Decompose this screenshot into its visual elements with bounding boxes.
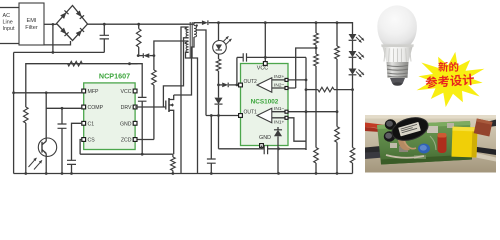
- svg-text:OUT2: OUT2: [244, 79, 258, 85]
- svg-text:NCS1002: NCS1002: [251, 99, 279, 106]
- wire CS: [80, 140, 82, 155]
- diode D5 zener: [214, 85, 222, 117]
- wire divider mid: [296, 47, 318, 88]
- op-amp U1 NCP1607 box: [84, 83, 135, 150]
- node LED bulb photo: [377, 5, 417, 85]
- resistor R1: [68, 61, 83, 66]
- svg-text:VCC: VCC: [257, 66, 268, 72]
- wire DC+ rail left: [88, 23, 195, 26]
- svg-text:NCP1607: NCP1607: [99, 72, 130, 81]
- node starburst new reference design: [417, 52, 485, 107]
- wire DC- rail: [14, 51, 105, 54]
- node AC line input label: [3, 13, 15, 32]
- diode D2 output: [194, 20, 353, 25]
- diode D6 zener internal: [274, 127, 282, 175]
- wire VCC feed: [130, 64, 143, 155]
- diode D7 LED: [349, 34, 364, 43]
- svg-text:VCC: VCC: [121, 89, 132, 95]
- svg-text:GND: GND: [120, 121, 132, 127]
- node NCP1607 label: [99, 72, 130, 81]
- wire VCC NCS: [257, 23, 268, 72]
- svg-text:IN1−: IN1−: [274, 106, 284, 112]
- EMI filter block: [19, 3, 44, 45]
- node GND pin: [259, 135, 271, 149]
- wire node B horizontal: [26, 64, 138, 107]
- resistor R2: [24, 107, 29, 174]
- wire IN2+: [272, 74, 308, 81]
- svg-text:Filter: Filter: [25, 25, 38, 31]
- wire opto LED top: [218, 23, 220, 41]
- svg-text:COMP: COMP: [88, 105, 104, 111]
- wire drain: [174, 37, 194, 95]
- transistor Q1 MOSFET: [166, 95, 174, 114]
- transformer T1: [185, 22, 198, 58]
- node NCS1002 label: [251, 99, 279, 106]
- node output rail dots: [217, 21, 338, 24]
- resistor R3: [136, 24, 141, 55]
- wire IN2-: [272, 82, 296, 89]
- wire output return: [219, 148, 265, 150]
- wire secondary return: [196, 30, 207, 116]
- op-amp U2A: [239, 78, 272, 92]
- wire DRV to gate: [135, 106, 166, 108]
- capacitor C1 input filter: [100, 24, 109, 52]
- wire secondary bottom: [163, 38, 188, 107]
- wire IN1-: [272, 106, 339, 113]
- wire opto emitter: [45, 156, 47, 173]
- resistor R10: [335, 23, 340, 112]
- wire feedback: [305, 88, 318, 91]
- svg-text:IN2+: IN2+: [274, 74, 284, 80]
- wire bridge AC1 to DC- rail: [52, 24, 54, 52]
- svg-text:ZCD: ZCD: [121, 138, 132, 144]
- svg-text:CS: CS: [88, 138, 96, 144]
- node light arrows in: [29, 158, 43, 170]
- node VCC feed junction: [128, 62, 131, 65]
- svg-text:OUT1: OUT1: [244, 110, 258, 116]
- svg-text:DRV: DRV: [121, 105, 132, 111]
- wire IN1+: [272, 116, 306, 141]
- svg-text:IN2−: IN2−: [274, 82, 284, 88]
- resistor R7: [314, 23, 319, 48]
- diode D9 LED: [349, 69, 364, 78]
- wire out1 col down: [218, 116, 220, 149]
- capacitor C4: [67, 160, 76, 173]
- wire secondary top: [181, 27, 189, 174]
- diode D3 optocoupler LED: [213, 36, 232, 54]
- wire source: [173, 114, 175, 154]
- wire OUT2: [219, 84, 223, 86]
- wire ZCD: [135, 139, 154, 141]
- wire ground rail: [14, 172, 353, 175]
- diode bridge BR1: [57, 6, 88, 41]
- resistor R6: [216, 54, 221, 86]
- capacitor C3 COMP: [58, 108, 67, 173]
- resistor R5 sense: [171, 154, 176, 175]
- resistor R8: [314, 48, 319, 148]
- wire ZCD column top: [154, 41, 189, 56]
- diode D8 LED: [349, 51, 364, 60]
- wire LED string: [352, 41, 354, 90]
- capacitor C6: [264, 145, 306, 154]
- node PCB photo: [365, 114, 496, 173]
- wire left rail: [13, 52, 15, 173]
- resistor R12: [318, 87, 354, 92]
- wire MFP: [12, 91, 82, 94]
- wire C1 pin: [72, 123, 83, 160]
- wire EMI to bridge AC1: [44, 23, 57, 26]
- svg-text:GND: GND: [259, 135, 271, 141]
- svg-text:EMI: EMI: [27, 18, 37, 24]
- resistor R11: [335, 112, 340, 175]
- capacitor C5: [207, 116, 216, 175]
- svg-text:AC: AC: [3, 13, 11, 19]
- resistor R4: [152, 56, 157, 140]
- wire AC input bottom: [0, 43, 19, 45]
- node NCP1607 pins: [82, 89, 137, 144]
- svg-text:Input: Input: [3, 26, 15, 32]
- wire LED string top: [337, 23, 353, 34]
- svg-text:C1: C1: [88, 121, 95, 127]
- wire opto collector: [45, 93, 47, 139]
- wire comp cap branch: [236, 57, 238, 85]
- svg-text:IN1+: IN1+: [274, 119, 284, 125]
- diode D4: [222, 83, 240, 88]
- svg-text:MFP: MFP: [88, 89, 99, 95]
- wire COMP: [46, 107, 82, 110]
- wire sense column: [305, 57, 307, 149]
- capacitor C2 VCC: [138, 97, 147, 155]
- resistor R13: [350, 90, 355, 174]
- capacitor C7 comp: [237, 53, 306, 61]
- op-amp U2B: [239, 108, 272, 122]
- op-amp U2 NCS1002 box: [241, 64, 289, 146]
- resistor R9: [314, 148, 319, 175]
- diode D1: [137, 53, 156, 58]
- svg-text:Line: Line: [3, 20, 13, 26]
- wire aux bottom: [186, 52, 198, 173]
- wire CS to sense: [80, 153, 173, 155]
- wire AC input top: [0, 7, 19, 9]
- wire EMI bottom to bridge: [44, 41, 71, 45]
- transistor Q2 optocoupler output: [38, 138, 56, 156]
- wire OUT1: [206, 114, 241, 117]
